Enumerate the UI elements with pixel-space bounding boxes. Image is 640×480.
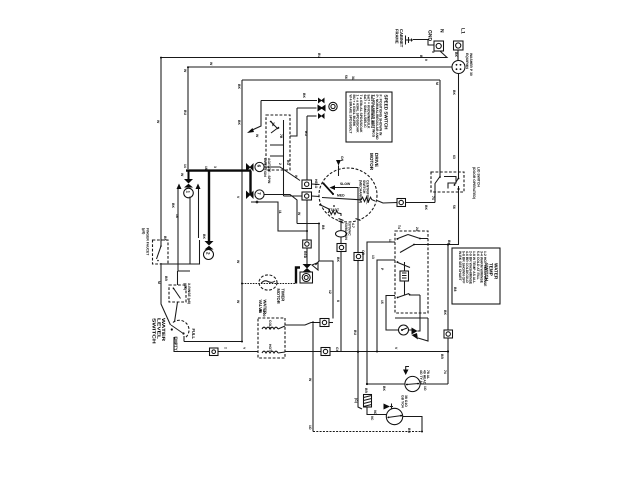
wire neutral rail lower segment to water level switch	[161, 263, 171, 325]
wire lid lead	[406, 202, 436, 204]
speed switch legend title	[371, 95, 388, 141]
speed switch dashed box	[266, 115, 290, 170]
svg-text:BU: BU	[183, 110, 187, 115]
svg-text:1: 1	[186, 191, 191, 194]
svg-text:W: W	[236, 300, 240, 304]
label pump1	[419, 370, 430, 385]
wire harness left rail down	[241, 80, 243, 341]
label speck 31 inner top	[351, 76, 355, 80]
svg-text:W-BK SEE CHART: W-BK SEE CHART	[458, 251, 462, 282]
label timer motor	[276, 289, 285, 304]
label speck W top second wire	[183, 69, 187, 73]
svg-text:L1: L1	[460, 28, 466, 34]
right rail down to pump	[447, 245, 449, 331]
svg-text:FRAME: FRAME	[394, 29, 399, 44]
wire 6a to water valve	[218, 351, 258, 353]
svg-text:MED: MED	[337, 194, 345, 198]
svg-text:W: W	[180, 173, 184, 177]
connector box B right rail	[444, 330, 453, 338]
water level switch contacts	[171, 325, 185, 335]
connector box CR	[320, 319, 329, 327]
arrow into speed switch	[247, 128, 254, 133]
svg-text:2: 2	[278, 163, 282, 165]
label 90 9C	[373, 410, 377, 415]
wire empty contact to valve line	[174, 337, 210, 352]
svg-text:BK: BK	[237, 120, 241, 125]
svg-text:56: 56	[452, 205, 456, 209]
wire motor rail down	[251, 116, 307, 240]
svg-text:MOTOR: MOTOR	[276, 289, 281, 304]
svg-text:BR: BR	[164, 276, 168, 281]
timer contact A	[397, 235, 429, 240]
label HE1O	[314, 179, 318, 189]
right rail continue	[447, 338, 449, 384]
svg-text:BR: BR	[440, 354, 444, 359]
label speck 56 right rail	[452, 205, 456, 209]
node 7 arrows	[246, 191, 254, 200]
label W left rail	[156, 120, 160, 124]
buzzer circle	[399, 325, 409, 335]
svg-text:3: 3	[213, 166, 217, 168]
svg-text:BK: BK	[163, 236, 167, 241]
timer contact D	[397, 294, 420, 299]
connector box motor lead lower	[302, 192, 312, 200]
svg-text:MOTOR: MOTOR	[369, 153, 374, 171]
wire middle branch	[297, 224, 333, 319]
label speck GY hot line mid	[335, 347, 339, 353]
hatched connector motor-pump	[364, 395, 372, 408]
svg-text:FULL: FULL	[191, 329, 196, 340]
cold solenoid coil	[262, 327, 278, 329]
svg-text:M: M	[435, 82, 439, 85]
node 2 circled	[204, 250, 214, 260]
label speck near node1	[180, 173, 184, 177]
label BK lid lead	[424, 205, 428, 210]
timer internal resistor box	[400, 271, 409, 281]
label 10 bottom left	[308, 425, 312, 430]
svg-text:7A: 7A	[271, 122, 275, 127]
svg-text:GN: GN	[340, 156, 344, 162]
svg-text:1O: 1O	[423, 386, 427, 391]
label water valve	[258, 300, 267, 315]
svg-text:6: 6	[257, 165, 262, 168]
svg-text:LID SWITCH: LID SWITCH	[477, 167, 481, 187]
label speck T valve line	[223, 347, 227, 350]
timer motor supply wire	[242, 283, 296, 285]
timer output lower left	[386, 296, 398, 331]
timer contact B from L1	[400, 244, 428, 253]
svg-text:T4: T4	[397, 225, 401, 229]
motor lead exit hatches	[339, 219, 361, 224]
lid switch dashed box	[431, 172, 464, 192]
svg-text:8: 8	[336, 300, 340, 302]
svg-text:RED: RED	[303, 251, 307, 259]
svg-text:W: W	[297, 212, 301, 216]
label full	[191, 329, 196, 340]
svg-text:BK: BK	[171, 203, 175, 208]
svg-text:SLOW: SLOW	[340, 182, 351, 186]
label speck Y x-rinse	[164, 276, 168, 281]
svg-text:1O: 1O	[308, 425, 312, 430]
svg-text:V: V	[394, 347, 398, 350]
label speck BK right rail low	[443, 370, 447, 374]
label speck BK speed box low	[278, 163, 282, 165]
label M on harness wire	[435, 82, 439, 85]
motor start winding zigzag	[328, 211, 341, 216]
svg-text:9: 9	[424, 59, 428, 61]
timer contact C	[397, 261, 411, 295]
svg-text:7B: 7B	[279, 134, 283, 139]
svg-text:9: 9	[431, 51, 435, 53]
wire lid switch right pole down to timer	[428, 192, 459, 245]
wire bottom run	[313, 431, 422, 433]
label G connector	[354, 398, 358, 403]
label speck 2A timer box top	[415, 227, 419, 232]
svg-text:T: T	[223, 347, 227, 350]
wire connector to pump2	[367, 407, 386, 415]
timer motor arc	[261, 281, 275, 284]
label BK near node 5	[302, 93, 306, 98]
wire CR to middle branch	[329, 322, 333, 324]
svg-text:BU: BU	[317, 53, 321, 58]
label GN	[340, 156, 344, 162]
label BU bottom	[407, 428, 411, 433]
wire speed feed lower from motor riser	[307, 115, 317, 117]
wire buzzer branch down	[418, 318, 428, 341]
svg-text:W: W	[255, 134, 259, 138]
label speck BU plug down	[452, 90, 456, 95]
label water level switch	[152, 318, 166, 345]
connector box 6a on hot line	[210, 348, 219, 356]
wire L1 from terminal to plug	[457, 50, 459, 61]
svg-text:2: 2	[206, 252, 211, 255]
label BK right rail mid	[443, 310, 447, 315]
ground pump1	[403, 367, 409, 376]
wire rail to dome bottom	[161, 263, 190, 265]
label W near speed switch	[255, 134, 259, 138]
svg-text:B8: B8	[453, 287, 457, 291]
power cord plug circle	[452, 61, 465, 74]
svg-text:56: 56	[344, 75, 348, 79]
motor speed contact bold diagonal	[323, 183, 335, 196]
wire water level FULL to rail	[184, 341, 242, 343]
svg-text:M: M	[157, 281, 161, 284]
wire pressure dome to x-rinse	[175, 271, 178, 322]
svg-text:BK: BK	[336, 257, 340, 262]
water valve dashed box	[258, 318, 285, 358]
label speck T4 timer box	[397, 225, 401, 229]
svg-text:74: 74	[443, 370, 447, 374]
svg-text:63: 63	[452, 155, 456, 159]
label speck BK node2	[202, 234, 206, 239]
timer switch dashed box	[395, 231, 428, 313]
label pump2	[400, 395, 408, 408]
timer box bottom line	[395, 317, 428, 319]
wire branch from plug left to console rail	[188, 67, 452, 169]
svg-text:V: V	[236, 196, 240, 199]
wire harness top run	[242, 79, 440, 81]
svg-text:HOT: HOT	[268, 344, 272, 352]
svg-text:11: 11	[388, 239, 392, 243]
label speck V rail	[236, 196, 240, 199]
node 6 arrows	[246, 163, 254, 172]
solenoid box with motor symbol	[300, 272, 313, 283]
lid switch contacts	[435, 172, 459, 192]
svg-text:(DOOR OPERATED): (DOOR OPERATED)	[472, 167, 476, 199]
timer feed wire upper	[367, 242, 395, 384]
wire speed feed middle	[290, 108, 317, 136]
wire cold output to connector	[278, 323, 320, 330]
timer legend title	[484, 263, 499, 282]
svg-text:W 4 BRAKE SPDS/SOLT: W 4 BRAKE SPDS/SOLT	[348, 95, 352, 135]
connector box start lead	[354, 253, 363, 261]
label BU on top wire	[317, 53, 321, 58]
pressure dome outer rectangle	[178, 188, 199, 271]
motor arrow on slow wire	[330, 185, 336, 190]
svg-text:BK: BK	[237, 84, 241, 89]
connector L1 plug terminal	[454, 41, 464, 50]
svg-text:BK: BK	[452, 90, 456, 95]
svg-text:74: 74	[431, 196, 435, 200]
ground drive motor	[336, 160, 341, 176]
svg-text:11: 11	[278, 210, 282, 214]
svg-text:Y: Y	[242, 347, 246, 350]
label finger faucet	[142, 228, 150, 256]
label power supply	[465, 53, 473, 76]
pressure dome arrows	[177, 184, 201, 190]
wire pump2 right down	[403, 417, 423, 432]
svg-text:GB YO4: GB YO4	[400, 395, 404, 408]
connector box motor lead upper	[302, 180, 312, 189]
wire neutral from N terminal to left rail	[161, 51, 447, 241]
svg-text:W: W	[209, 62, 213, 66]
timer motor dashed circle	[259, 275, 277, 290]
label speck 12 middle branch	[328, 290, 332, 294]
svg-text:31: 31	[351, 76, 355, 80]
svg-text:COLD: COLD	[268, 320, 272, 330]
label speck 15 timer low	[380, 300, 384, 304]
node 5 circled	[329, 102, 337, 110]
label speck 13 timer mid	[380, 268, 384, 271]
svg-text:(p8): (p8)	[142, 228, 146, 234]
svg-text:N: N	[439, 29, 445, 33]
svg-text:GND: GND	[427, 30, 433, 42]
label BK left	[163, 236, 167, 241]
timer feed wire middle	[377, 260, 395, 352]
wire buzzer to timer contact	[409, 295, 421, 331]
label BK pressure hose	[171, 203, 175, 208]
label BR hot line	[440, 354, 444, 359]
svg-text:BK: BK	[443, 310, 447, 315]
label speck 18 pressure	[175, 214, 179, 218]
label speck W water line	[308, 378, 312, 382]
label BK pump1	[382, 386, 386, 391]
pressure dome inner rectangle	[190, 197, 200, 265]
ground cabinet frame	[406, 36, 435, 46]
label centrifugal switch	[358, 180, 369, 204]
svg-text:W: W	[183, 69, 187, 73]
label L1	[460, 28, 466, 34]
wire harness right down to lid switch	[439, 80, 441, 172]
label B8	[321, 225, 325, 229]
connector box BK hot	[321, 348, 330, 356]
svg-text:W: W	[308, 378, 312, 382]
label RED	[303, 251, 307, 259]
svg-text:4O TY AL: 4O TY AL	[419, 370, 423, 385]
svg-text:P: P	[380, 268, 384, 271]
wire pump1 left	[367, 383, 405, 385]
label speck BK pump1 right	[423, 386, 427, 391]
label x-rinse	[183, 283, 191, 304]
arrow below buzzer	[412, 333, 419, 340]
wire bus down to node 7	[249, 171, 251, 195]
svg-text:13: 13	[371, 255, 375, 259]
label W motor lead	[294, 175, 298, 179]
arrow into solenoid right	[312, 261, 319, 270]
label speck 3 bus	[213, 166, 217, 168]
svg-text:(MECHANISM): (MECHANISM)	[358, 180, 362, 203]
label BK top right	[419, 55, 423, 58]
label cold	[268, 320, 272, 330]
svg-text:9C: 9C	[370, 416, 374, 421]
wire junction down to bottom run	[312, 324, 314, 432]
wire L1 from plug down to lid switch	[458, 74, 460, 173]
wire hot line to right rail	[330, 351, 448, 353]
svg-text:START: START	[328, 208, 340, 212]
label speck 11 motor left	[278, 210, 282, 214]
wire hot output to connector	[278, 352, 321, 354]
svg-text:SPEED SWITCH: SPEED SWITCH	[384, 95, 389, 131]
label 74	[431, 196, 435, 200]
label BK BK run lead	[336, 257, 340, 262]
svg-text:(G): (G)	[354, 398, 358, 403]
buzzer arrow	[412, 328, 418, 335]
node 1 circled	[184, 188, 194, 198]
connector arrows node 1	[184, 171, 193, 188]
svg-text:W: W	[236, 260, 240, 264]
connector box run lead	[337, 244, 346, 252]
node 6 circled	[255, 162, 264, 171]
speed switch legend box	[346, 92, 392, 142]
svg-text:DIRECTION: DIRECTION	[263, 158, 267, 177]
speed switch contacts inside	[270, 120, 284, 170]
label speck Y pump2 wire	[370, 416, 374, 421]
wires node 6 and 7 to motor leads	[264, 167, 320, 224]
speed switch legend lines	[348, 95, 374, 135]
label drive motor	[369, 153, 379, 171]
svg-text:15: 15	[380, 300, 384, 304]
motor main winding zigzag	[361, 197, 375, 201]
connector box 3O3	[303, 240, 312, 248]
node 5 arrows	[318, 98, 326, 120]
svg-text:18: 18	[175, 214, 179, 218]
motor start contact	[319, 204, 335, 210]
label BK wire	[454, 52, 458, 57]
pump motor 2	[386, 408, 402, 424]
label speck V hot line right	[394, 347, 398, 350]
label speck GY motor start lead	[353, 330, 357, 335]
svg-text:BU: BU	[407, 428, 411, 433]
connector arrows node 2	[205, 241, 214, 250]
svg-text:BK: BK	[382, 386, 386, 391]
svg-text:12: 12	[328, 290, 332, 294]
run capacitor oval	[336, 231, 347, 237]
wire motor right to lid switch lead	[377, 201, 397, 204]
label speck OR timer feed	[361, 250, 365, 256]
label speck 57 top wire right	[424, 59, 428, 61]
label BK BK timer feed	[447, 240, 451, 245]
svg-text:EQUIPMN: EQUIPMN	[465, 53, 469, 69]
hot solenoid coil	[262, 351, 278, 353]
label lid switch	[472, 167, 480, 199]
label M rail	[157, 281, 161, 284]
svg-text:2A: 2A	[415, 227, 419, 232]
svg-text:BK: BK	[302, 93, 306, 98]
x-rinse switch dashed box	[169, 285, 186, 302]
label speck BU left rail low	[236, 260, 240, 264]
svg-text:14: 14	[183, 164, 187, 168]
svg-text:BR: BR	[364, 388, 368, 393]
label speck BU harness top	[237, 84, 241, 89]
svg-text:50/60 RUN: 50/60 RUN	[344, 223, 348, 240]
svg-text:(BK): (BK)	[183, 283, 187, 290]
svg-text:BU: BU	[286, 160, 290, 165]
connector arrows node 2 wire	[208, 171, 210, 241]
label W on second wire	[209, 62, 213, 66]
label hot	[268, 344, 272, 352]
svg-text:SWITCH: SWITCH	[152, 318, 157, 345]
timer legend lines	[458, 251, 487, 287]
svg-text:BK: BK	[424, 205, 428, 210]
label 4100 P8	[258, 309, 266, 317]
timer legend box	[452, 248, 500, 304]
label 14 bus	[183, 164, 187, 168]
svg-text:BK: BK	[202, 234, 206, 239]
wire console bus thick	[186, 169, 251, 171]
svg-text:B8: B8	[321, 225, 325, 229]
motor start lead down thick	[358, 221, 362, 409]
label speck 63 lid feed	[452, 155, 456, 159]
label agitate direction	[263, 158, 271, 184]
label W valve feed	[236, 300, 240, 304]
label N	[439, 29, 445, 33]
label capacitor rating	[344, 223, 355, 240]
wire to agitate solenoid	[306, 248, 308, 264]
pump motor 1	[405, 376, 420, 391]
wire speed feed upper	[250, 101, 317, 132]
label speck Y valve right	[242, 347, 246, 350]
thick elbow into solenoid	[296, 268, 300, 284]
svg-text:P8: P8	[258, 309, 262, 313]
wire lid switch left pole down to motor lead	[434, 192, 436, 203]
finger faucet switch dashed box	[153, 240, 169, 264]
label BU motor	[286, 160, 290, 165]
ground pump2	[384, 404, 394, 410]
drive motor dashed circle	[319, 168, 377, 222]
motor main wire	[322, 198, 361, 200]
svg-text:GY: GY	[335, 347, 339, 353]
label 16	[204, 166, 208, 170]
svg-text:OR: OR	[361, 250, 365, 256]
svg-text:BK: BK	[454, 52, 458, 57]
motor slow wire to start lead	[335, 188, 358, 221]
label BK rail	[237, 120, 241, 125]
label BR connector	[364, 388, 368, 393]
label BU riser	[304, 131, 308, 136]
label empty	[174, 337, 179, 351]
wire pump1 right	[420, 383, 448, 385]
label BU rail	[183, 110, 187, 115]
